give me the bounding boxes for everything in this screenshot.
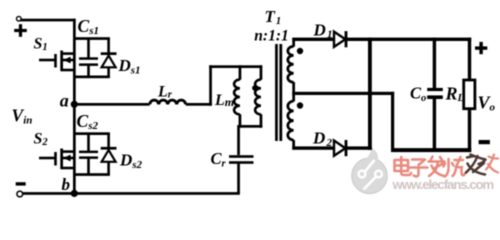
label Ds1 bbox=[118, 56, 141, 77]
plus sign input bbox=[14, 24, 27, 37]
wire secondary top to D1 bbox=[292, 38, 334, 41]
label Lm bbox=[214, 92, 234, 109]
minus sign input bbox=[16, 182, 26, 185]
inductor Lm bbox=[234, 65, 241, 127]
wire cathode riser bbox=[368, 38, 372, 150]
diode D2 bbox=[334, 140, 347, 156]
terminal - (input, open circle) bbox=[17, 191, 23, 197]
wire S1 snubber top bbox=[73, 37, 110, 40]
label S1 bbox=[34, 36, 48, 54]
node a bbox=[71, 101, 78, 108]
label Co bbox=[410, 83, 426, 104]
wire output top rail bbox=[347, 38, 471, 41]
transformer T1 secondary winding 2 bbox=[288, 93, 295, 149]
wire tank top bbox=[209, 65, 262, 68]
primary dot bbox=[252, 85, 258, 91]
watermark logo bbox=[352, 147, 388, 193]
capacitor Cr bbox=[229, 155, 254, 193]
wire S2 snubber top bbox=[73, 132, 110, 135]
svg-text:b: b bbox=[62, 175, 71, 194]
wire bottom-left bbox=[23, 192, 240, 195]
node b bbox=[71, 190, 78, 197]
label Cs1 bbox=[78, 16, 99, 37]
label n:1:1 bbox=[254, 27, 288, 44]
label Vin bbox=[12, 105, 33, 126]
wire left rail bbox=[73, 19, 76, 195]
wire center tap drop bbox=[391, 92, 394, 152]
inductor Lr bbox=[150, 100, 186, 104]
watermark flourish bbox=[486, 155, 498, 173]
wire Lr to riser bbox=[186, 103, 212, 106]
label Ds2 bbox=[119, 151, 143, 172]
label Vo bbox=[478, 93, 496, 114]
diode D1 bbox=[334, 31, 347, 47]
svg-text:www.elecfans.com: www.elecfans.com bbox=[392, 177, 494, 192]
wire riser up bbox=[209, 65, 212, 105]
watermark text dianzifashaoyou bbox=[395, 157, 466, 177]
capacitor Cs2 bbox=[79, 133, 98, 174]
secondary 1 dot bbox=[297, 48, 303, 54]
label D1 bbox=[313, 20, 333, 40]
diode Ds2 bbox=[101, 133, 117, 174]
wire D2 to riser bbox=[347, 146, 372, 149]
svg-text:Lm: Lm bbox=[214, 92, 234, 109]
transformer T1 secondary winding 1 bbox=[288, 38, 295, 95]
terminal + (input, open circle) bbox=[17, 16, 22, 21]
wire secondary bottom to D2 bbox=[292, 146, 334, 149]
wire output bottom rail bbox=[391, 148, 471, 152]
wire output right edge top bbox=[468, 38, 471, 80]
wire center tap bbox=[292, 92, 394, 95]
wire S2 snubber bottom bbox=[73, 173, 110, 176]
svg-text:n:1:1: n:1:1 bbox=[254, 27, 288, 44]
watermark dark glyph you bbox=[466, 155, 486, 175]
wire top-left bbox=[20, 19, 75, 22]
transformer T1 primary winding bbox=[255, 65, 262, 127]
label Lr bbox=[157, 83, 173, 100]
label T1 bbox=[265, 7, 282, 27]
wire S1 snubber bottom bbox=[73, 76, 110, 79]
label Cs2 bbox=[77, 111, 99, 132]
label S2 bbox=[34, 131, 49, 149]
transistor S1 bbox=[39, 51, 75, 72]
transformer T1 core bbox=[275, 44, 282, 141]
svg-text:a: a bbox=[60, 91, 69, 111]
wire output right edge bottom bbox=[468, 110, 471, 152]
wire node a to Lr bbox=[74, 103, 149, 106]
wire Lm to Cr bbox=[237, 125, 240, 155]
resistor RL bbox=[464, 80, 475, 109]
label a bbox=[60, 91, 69, 111]
label RL bbox=[445, 84, 465, 105]
capacitor Co bbox=[427, 38, 443, 151]
secondary 2 dot bbox=[297, 102, 303, 108]
diode Ds1 bbox=[101, 38, 117, 77]
watermark url www.elecfans.com bbox=[392, 177, 494, 192]
label Cr bbox=[211, 149, 227, 170]
label D2 bbox=[312, 129, 332, 149]
wire tank bottom bbox=[239, 125, 263, 128]
minus sign output bbox=[479, 140, 490, 144]
plus sign output bbox=[475, 42, 487, 54]
label b bbox=[62, 175, 71, 194]
capacitor Cs1 bbox=[79, 38, 98, 77]
transistor S2 bbox=[39, 149, 75, 170]
